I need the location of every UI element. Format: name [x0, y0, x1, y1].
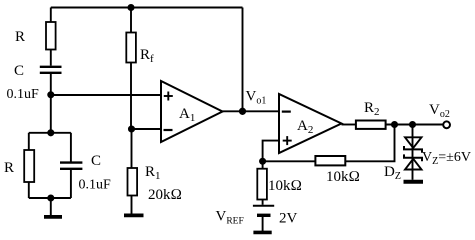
svg-text:R: R — [4, 160, 14, 176]
svg-text:R: R — [15, 29, 25, 45]
battery VREF 2V — [253, 206, 274, 216]
label - input A2 — [282, 110, 291, 112]
ground (Dz) — [404, 180, 424, 184]
svg-text:0.1uF: 0.1uF — [79, 178, 112, 193]
wire: parallel C branch upper — [70, 133, 72, 162]
wire: node A to A1 + input — [51, 94, 161, 96]
resistor R (parallel) — [24, 150, 34, 182]
node: feedback tap — [392, 122, 397, 127]
svg-text:10kΩ: 10kΩ — [268, 178, 302, 194]
zener diode Dz lower (cathode bar with hooks) — [404, 154, 422, 169]
node B: inverting input junction — [129, 126, 134, 131]
wire: A2 + input left and down — [263, 141, 279, 162]
wire: parallel C branch lower — [70, 169, 72, 198]
wire: Vo1 feedback vertical (right end of rail down to output node) — [242, 8, 244, 112]
op-amp A1 — [161, 81, 223, 142]
svg-text:C: C — [14, 63, 24, 79]
wire: node B to A1 - input — [132, 128, 162, 130]
svg-text:10kΩ: 10kΩ — [326, 169, 360, 185]
resistor 10k (feedback, horizontal) — [315, 156, 345, 165]
wire: parallel RC to ground — [50, 198, 52, 215]
wire: 10k to battery — [262, 200, 264, 205]
capacitor C (parallel) — [60, 163, 82, 169]
node: zener tap — [410, 122, 415, 127]
resistor R2 — [356, 121, 386, 129]
wire: Rf down to node B — [130, 63, 132, 130]
wire: rail down to resistor R — [50, 8, 52, 23]
op-amp A2 — [279, 94, 342, 153]
node Vo1 — [240, 109, 245, 114]
wire: node A down to parallel RC — [50, 95, 52, 133]
svg-text:VZ=±6V: VZ=±6V — [422, 150, 471, 167]
ground (VREF) — [253, 231, 271, 235]
svg-text:C: C — [91, 153, 101, 169]
ground (R1) — [124, 213, 144, 217]
capacitor C (series) — [40, 67, 62, 73]
ground (parallel RC) — [44, 215, 62, 219]
wire: battery to ground — [262, 215, 264, 231]
wire: A2 output to R2 — [342, 124, 356, 126]
wire: parallel R branch upper — [28, 133, 30, 150]
wire: C down to node A — [50, 73, 52, 95]
wire: parallel RC bottom rail — [29, 197, 71, 199]
wire: node B down to R1 — [131, 129, 133, 168]
label + input A1 — [164, 92, 173, 101]
node: top rail / Rf junction — [128, 5, 133, 10]
zener diode Dz upper (cathode bar with hooks) — [404, 137, 422, 153]
wire: junction to horizontal 10k resistor — [263, 160, 316, 162]
wire: zener branch vertical — [412, 125, 414, 180]
label + input A2 — [283, 136, 292, 145]
terminal Vo2 (open circle) — [443, 121, 450, 128]
node A: series RC / + input junction — [48, 92, 53, 97]
resistor R (series) — [46, 22, 56, 50]
node: A2 + input junction — [260, 159, 265, 164]
resistor R1 — [128, 168, 138, 196]
node: parallel RC top junction — [48, 130, 53, 135]
wire: R to C — [50, 50, 52, 66]
wire: parallel RC top rail — [29, 132, 71, 134]
wire: junction down to vertical 10k — [262, 161, 264, 168]
wire: top rail horizontal — [51, 7, 243, 9]
wire: R2 to output terminal Vo2 — [386, 124, 444, 126]
svg-text:2V: 2V — [279, 211, 298, 227]
label - input A1 — [164, 129, 173, 131]
wire: parallel R branch lower — [28, 182, 30, 198]
node: parallel RC bottom junction — [48, 195, 53, 200]
wire: R1 to ground — [131, 196, 133, 214]
svg-text:0.1uF: 0.1uF — [7, 87, 40, 102]
resistor 10k (vertical, to VREF) — [257, 169, 267, 200]
wire: rail down to Rf — [130, 8, 132, 33]
wire: A1 output to A2 - input — [223, 110, 280, 112]
resistor Rf — [126, 33, 136, 63]
wire: 10k feedback to R2 output node — [346, 125, 395, 162]
svg-text:20kΩ: 20kΩ — [148, 187, 182, 203]
